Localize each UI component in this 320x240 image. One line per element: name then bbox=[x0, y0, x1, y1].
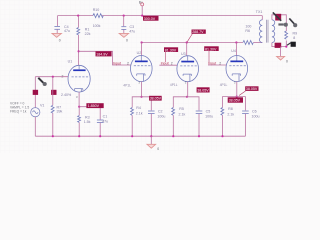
secondary coil bbox=[272, 20, 275, 43]
svg-text:C6: C6 bbox=[252, 110, 257, 114]
svg-text:288.7V: 288.7V bbox=[192, 30, 204, 34]
wire tube2 plate lead bbox=[141, 43, 143, 56]
svg-text:47u: 47u bbox=[102, 119, 108, 123]
resistor R1 bbox=[77, 28, 80, 35]
wire t2 junction to C2 bbox=[142, 97, 152, 111]
wire t4 junction to R8 bbox=[223, 97, 237, 108]
wire U1 grid bbox=[35, 76, 68, 78]
ground secondary bbox=[277, 47, 288, 64]
svg-text:2: 2 bbox=[127, 62, 129, 66]
wire V1 bottom lead bbox=[34, 117, 36, 136]
wire tube2 cathode bbox=[140, 82, 142, 97]
svg-text:1.850V: 1.850V bbox=[88, 104, 100, 108]
probe marker 1 (diagonal) bbox=[273, 12, 281, 20]
primary coil bbox=[259, 20, 262, 43]
svg-text:2.1k: 2.1k bbox=[179, 112, 186, 116]
svg-text:C2: C2 bbox=[158, 110, 163, 114]
ground for C3 bbox=[119, 33, 128, 42]
bias box V1 small bbox=[33, 90, 38, 95]
svg-text:0: 0 bbox=[286, 60, 288, 64]
svg-text:C5: C5 bbox=[206, 110, 211, 114]
wire input stub t3 bbox=[159, 64, 177, 66]
wire R6 to primary bbox=[253, 42, 262, 44]
bottom ground rail bbox=[35, 135, 245, 137]
triode U3 bbox=[177, 56, 199, 82]
node secondary load junction bbox=[285, 46, 287, 48]
resistor R6 bbox=[243, 41, 253, 45]
secondary top lead bbox=[272, 15, 286, 31]
svg-text:38.05V: 38.05V bbox=[197, 89, 209, 93]
node B+ port bbox=[139, 0, 144, 16]
wire C3 lead bbox=[123, 16, 125, 27]
wire junction to C1 bbox=[79, 107, 100, 120]
capacitor C1 bbox=[97, 120, 104, 136]
svg-text:4P1L: 4P1L bbox=[123, 83, 131, 87]
svg-text:8: 8 bbox=[293, 36, 295, 40]
svg-text:R9: R9 bbox=[293, 31, 298, 35]
svg-text:100u: 100u bbox=[157, 114, 165, 118]
ground 0 main bbox=[147, 136, 159, 151]
grid dashes bbox=[72, 76, 89, 78]
current marker black square bbox=[287, 42, 296, 47]
node U1 plate junction bbox=[78, 50, 80, 52]
plate lead bbox=[78, 65, 80, 69]
svg-text:38.05V: 38.05V bbox=[229, 99, 241, 103]
svg-text:47u: 47u bbox=[64, 29, 70, 33]
node tube3 plate bbox=[186, 41, 188, 43]
bias box U1 plate 184.9V bbox=[96, 51, 112, 56]
svg-text:100k: 100k bbox=[93, 24, 101, 28]
svg-text:22k: 22k bbox=[85, 32, 91, 36]
resistor R4 bbox=[131, 108, 134, 116]
svg-text:R8: R8 bbox=[228, 107, 233, 111]
wire top-left drop to C4 bbox=[57, 16, 59, 26]
svg-text:100u: 100u bbox=[252, 114, 260, 118]
V1 attribute text bbox=[10, 101, 29, 113]
wire R7 top lead bbox=[52, 77, 54, 106]
source V1 bbox=[31, 108, 40, 117]
triode U2 bbox=[131, 56, 153, 82]
resistor R5 bbox=[172, 108, 175, 116]
probe marker at V1 bbox=[38, 78, 46, 86]
capacitor C2 bbox=[148, 111, 155, 136]
capacitor C6 bbox=[242, 111, 249, 136]
svg-text:2.1k: 2.1k bbox=[136, 112, 143, 116]
svg-text:U1: U1 bbox=[68, 59, 73, 63]
svg-text:C1: C1 bbox=[103, 114, 108, 118]
wire R1 bottom to plate junction bbox=[77, 35, 79, 65]
core bbox=[266, 20, 268, 43]
wire t2 junction to R4 bbox=[132, 97, 141, 108]
bias box t4 below junction bbox=[228, 97, 243, 102]
wire input stub t4 bbox=[208, 64, 226, 66]
svg-text:0: 0 bbox=[126, 39, 128, 43]
svg-text:300.0V: 300.0V bbox=[144, 17, 156, 21]
resistor R10 bbox=[93, 14, 103, 18]
svg-text:39k: 39k bbox=[57, 110, 63, 114]
wire tube3 cathode bbox=[187, 82, 189, 97]
bias box input net t3 81.30V with pointer bbox=[164, 47, 178, 62]
bias box t4 cathode 38.05V with pointer bbox=[239, 86, 259, 95]
svg-text:47u: 47u bbox=[129, 29, 135, 33]
load resistor R9 bbox=[285, 31, 288, 39]
svg-text:R4: R4 bbox=[136, 106, 141, 110]
svg-text:R5: R5 bbox=[179, 107, 184, 111]
primary lead bbox=[261, 16, 263, 20]
svg-text:4P1L: 4P1L bbox=[170, 83, 178, 87]
svg-text:1.5k: 1.5k bbox=[84, 120, 91, 124]
plate bar bbox=[73, 69, 85, 71]
node tube4 plate bbox=[235, 41, 237, 43]
bias box input net t4 81.30V with pointer bbox=[204, 46, 219, 62]
wire t3 junction to R5 bbox=[173, 97, 187, 108]
wire B+ top rail bbox=[58, 15, 93, 17]
capacitor C4 bbox=[54, 27, 60, 34]
svg-text:184.9V: 184.9V bbox=[96, 53, 108, 57]
bias box B+ 300.0V bbox=[143, 16, 159, 21]
svg-text:4P1L: 4P1L bbox=[220, 83, 228, 87]
svg-text:0: 0 bbox=[59, 39, 61, 43]
svg-text:38.05V: 38.05V bbox=[150, 97, 162, 101]
svg-text:100: 100 bbox=[245, 25, 251, 29]
capacitor C3 bbox=[121, 27, 126, 34]
transformer TX1 bbox=[256, 10, 286, 46]
bias box U1 cathode 1.850V bbox=[86, 103, 103, 108]
svg-text:2.1k: 2.1k bbox=[227, 112, 234, 116]
plate rail wire bbox=[142, 42, 243, 44]
svg-text:U2: U2 bbox=[137, 51, 142, 55]
bias box secondary bottom bbox=[275, 43, 282, 48]
rail junction dots bbox=[52, 135, 54, 137]
probe marker 2 bbox=[289, 18, 297, 27]
wire U1 cathode down bbox=[78, 92, 80, 107]
svg-text:38.05V: 38.05V bbox=[246, 87, 258, 91]
bias box plate rail 288.7V with pointer bbox=[187, 30, 206, 43]
svg-text:U4: U4 bbox=[231, 49, 236, 53]
svg-text:V1: V1 bbox=[40, 104, 44, 108]
bias box t3 cathode 38.05V bbox=[197, 87, 210, 92]
wire t4 junction to C6 bbox=[237, 97, 246, 111]
wire V1 top lead bbox=[34, 77, 36, 108]
resistor R3 bbox=[78, 107, 80, 116]
svg-text:R6: R6 bbox=[245, 29, 250, 33]
node junction R1/top rail bbox=[77, 15, 79, 17]
node U1 cathode junction bbox=[78, 106, 80, 108]
svg-text:R3: R3 bbox=[85, 115, 90, 119]
wire R7 bottom lead bbox=[52, 113, 54, 136]
svg-text:C4: C4 bbox=[64, 25, 69, 29]
grid dots bbox=[0, 0, 300, 153]
wire t3 junction to C5 bbox=[187, 97, 199, 111]
cathode bbox=[75, 89, 83, 92]
wire tube4 cathode bbox=[236, 82, 238, 97]
secondary bottom lead bbox=[272, 41, 286, 47]
triode U1 bbox=[68, 65, 90, 92]
svg-text:R10: R10 bbox=[93, 8, 100, 12]
svg-text:81.30V: 81.30V bbox=[205, 47, 217, 51]
bias box secondary top bbox=[275, 14, 281, 21]
node C3 junction bbox=[123, 15, 125, 17]
resistor R8 bbox=[221, 108, 224, 116]
svg-text:Input: Input bbox=[113, 61, 121, 65]
wire plate junction to corner bbox=[79, 51, 131, 65]
wire R1 top lead bbox=[77, 16, 79, 28]
svg-text:FREQ = 1k: FREQ = 1k bbox=[10, 110, 27, 114]
bias box t2 cathode 38.05V bbox=[149, 96, 162, 101]
svg-text:100u: 100u bbox=[205, 114, 213, 118]
svg-text:2.40%: 2.40% bbox=[61, 93, 72, 97]
svg-text:U3: U3 bbox=[181, 52, 186, 56]
svg-text:TX1: TX1 bbox=[256, 10, 263, 14]
bias box R7 small bbox=[51, 90, 56, 95]
capacitor C5 bbox=[196, 111, 203, 136]
probe marker 1 bar+tip bbox=[278, 23, 287, 27]
triode U4 bbox=[226, 56, 248, 82]
ground for C4 bbox=[52, 33, 61, 42]
svg-text:81.30V: 81.30V bbox=[165, 48, 177, 52]
svg-text:0: 0 bbox=[157, 147, 159, 151]
resistor R7 bbox=[51, 105, 54, 113]
